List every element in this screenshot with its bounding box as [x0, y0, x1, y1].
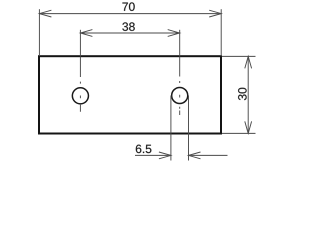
plate outline — [39, 56, 221, 133]
extension line 70 right — [220, 9, 222, 56]
extension line 30 top — [222, 55, 256, 57]
label 38 — [122, 22, 134, 31]
extension line 30 bottom — [222, 132, 256, 134]
dimension line 70 — [39, 13, 221, 15]
extension line 70 left — [38, 9, 40, 56]
arrow 38 left — [80, 30, 92, 37]
arrow 30 bottom — [245, 121, 252, 133]
arrow 6.5 left — [159, 152, 171, 159]
hole H1 — [72, 88, 88, 104]
dimension line 6.5 right — [189, 154, 228, 156]
arrow 38 right — [168, 30, 180, 37]
extension line 6.5 left tangent — [170, 96, 172, 161]
dimension line 6.5 left — [135, 154, 171, 156]
dimension line 30 — [247, 56, 249, 133]
arrow 6.5 right — [189, 152, 201, 159]
dimension line 38 — [80, 32, 179, 34]
arrow 70 right — [209, 10, 221, 17]
extension line 38 right — [179, 30, 181, 56]
label 30 — [238, 88, 247, 100]
label 6.5 — [136, 145, 152, 154]
centerline H1 — [79, 56, 81, 112]
hole H2 — [172, 87, 188, 103]
extension line 6.5 right tangent — [188, 96, 190, 161]
centerline H2 — [179, 56, 181, 115]
arrow 30 top — [245, 56, 252, 68]
arrow 70 left — [39, 10, 51, 17]
label 70 — [122, 2, 134, 11]
extension line 38 left — [79, 30, 81, 56]
